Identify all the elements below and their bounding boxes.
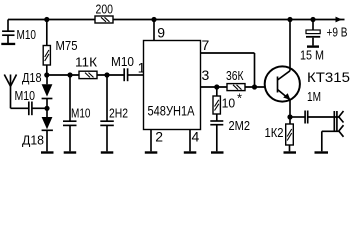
antenna WA1 <box>4 75 16 109</box>
connector XS1 output jack <box>322 111 344 151</box>
wire 36K to base <box>245 86 265 88</box>
wire antenna to C2 <box>11 107 29 109</box>
capacitor C6 2M2 <box>210 114 223 151</box>
transistor Q1 KT315 <box>265 66 300 117</box>
svg-text:*: * <box>237 91 242 106</box>
svg-text:36К: 36К <box>226 68 244 83</box>
node junction top rail / R M75 <box>44 17 49 22</box>
node junction collector rail <box>287 17 292 22</box>
svg-text:548УН1А: 548УН1А <box>148 103 196 119</box>
ground pin 4 <box>184 151 197 153</box>
svg-text:2М2: 2М2 <box>229 118 251 133</box>
svg-text:200: 200 <box>96 2 114 17</box>
resistor 10* <box>213 96 220 114</box>
wire C4 to IC pin1 <box>128 74 144 76</box>
wire 10* top lead <box>216 87 218 96</box>
svg-text:10: 10 <box>222 96 236 111</box>
wire left drop to C1 <box>7 20 9 31</box>
wire pin 4 <box>189 130 191 152</box>
wire pin 7 <box>201 53 255 87</box>
ground below connector <box>315 151 329 153</box>
svg-text:1М: 1М <box>307 89 321 104</box>
ground pin 2 <box>145 151 158 153</box>
ground below C3 <box>64 151 76 153</box>
wire top supply rail <box>8 19 345 21</box>
capacitor C7 15M electrolytic <box>306 20 320 46</box>
node junction C 2H2 <box>104 72 109 77</box>
ground below C5 <box>101 151 114 153</box>
node junction C M10 shunt <box>67 72 72 77</box>
arrow +9V supply <box>336 17 343 23</box>
wire C8 to connector <box>308 116 339 118</box>
capacitor C3 M10 shunt <box>63 75 77 151</box>
wire M75 bottom lead <box>46 65 48 75</box>
svg-text:7: 7 <box>202 37 210 53</box>
capacitor C8 1M output coupling <box>305 111 308 124</box>
svg-text:М75: М75 <box>56 38 78 53</box>
svg-text:М10: М10 <box>15 88 36 103</box>
capacitor C2 M10 antenna coupling <box>29 102 32 116</box>
wire bus to 11K <box>47 74 79 76</box>
svg-text:М10: М10 <box>111 54 134 69</box>
svg-text:9: 9 <box>157 25 165 41</box>
wire pin 3 to 36K <box>201 86 228 88</box>
wire C2 to diode node <box>32 107 47 109</box>
svg-text:15 М: 15 М <box>300 48 324 63</box>
ground below 15M <box>307 45 319 47</box>
node junction pin7 feedback <box>252 84 257 89</box>
resistor 1K2 <box>286 117 294 151</box>
svg-text:2: 2 <box>155 129 163 145</box>
svg-text:М10: М10 <box>71 106 91 121</box>
node bus left junction <box>44 72 49 77</box>
svg-text:КТ315: КТ315 <box>307 70 350 85</box>
diode VD2 D18 <box>42 108 53 151</box>
wire diode chain top lead <box>46 75 48 84</box>
svg-text:3: 3 <box>202 67 210 83</box>
svg-text:М10: М10 <box>17 27 37 42</box>
svg-text:Д18: Д18 <box>22 133 44 148</box>
node junction diodes <box>44 106 49 111</box>
wire emitter to C8 <box>290 116 305 118</box>
node junction pin9 <box>151 17 156 22</box>
svg-text:+9 В: +9 В <box>327 25 348 40</box>
node junction emitter <box>287 114 292 119</box>
resistor 36K <box>227 84 245 91</box>
ground below 1K2 <box>284 151 297 153</box>
op-amp IC 548UN1A box <box>144 41 201 130</box>
wire M75 top lead <box>46 20 48 46</box>
node junction 15M <box>310 17 315 22</box>
node junction 10* branch <box>214 84 219 89</box>
resistor R 200 <box>95 16 113 23</box>
ground below C1 <box>1 43 15 45</box>
svg-text:1К2: 1К2 <box>265 125 284 140</box>
ground below 2M2 <box>211 151 224 153</box>
capacitor C1 M10 top-left <box>2 31 14 43</box>
wire pin 9 <box>153 20 155 41</box>
svg-text:4: 4 <box>192 129 200 145</box>
diode VD1 D18 <box>42 84 53 108</box>
svg-text:Д18: Д18 <box>22 70 42 85</box>
resistor M75 <box>43 46 50 66</box>
capacitor C5 2H2 <box>100 75 114 151</box>
resistor 11K <box>79 71 97 78</box>
svg-text:2Н2: 2Н2 <box>109 106 128 121</box>
ground below VD2 <box>41 151 54 153</box>
wire 11K to C4 <box>97 74 124 76</box>
wire pin 2 <box>150 130 152 152</box>
capacitor C4 M10 series <box>124 68 127 81</box>
wire collector <box>289 20 291 71</box>
svg-text:11К: 11К <box>75 55 97 70</box>
